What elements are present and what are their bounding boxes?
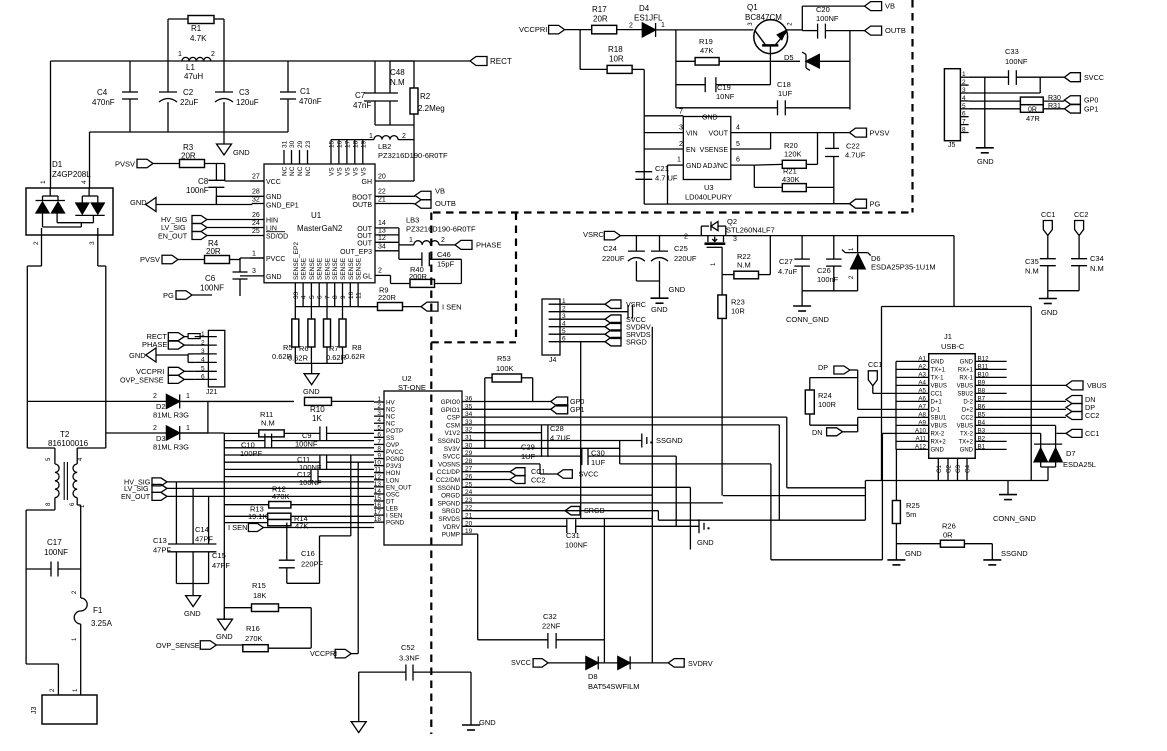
svg-text:GND: GND [960, 360, 974, 366]
svg-text:GND: GND [686, 163, 702, 170]
wire bottom cap rail [90, 131, 289, 133]
svg-text:470nF: 470nF [299, 97, 322, 106]
J1 shield pins G1-G4 [937, 458, 939, 480]
svg-text:33: 33 [465, 419, 473, 426]
svg-text:C27: C27 [779, 257, 793, 266]
svg-text:4: 4 [201, 357, 205, 364]
svg-text:B6: B6 [978, 403, 986, 410]
svg-text:120uF: 120uF [236, 98, 259, 107]
svg-text:33: 33 [293, 291, 300, 299]
svg-text:430K: 430K [782, 175, 800, 184]
svg-text:DT: DT [386, 498, 395, 505]
svg-text:2: 2 [377, 403, 381, 410]
svg-text:VBUS: VBUS [957, 424, 973, 430]
svg-text:3: 3 [962, 87, 966, 94]
flag VSRC J4 pin1 [570, 303, 605, 305]
svg-text:GND: GND [669, 285, 686, 294]
svg-text:OUTB: OUTB [353, 202, 373, 209]
svg-text:19: 19 [465, 528, 473, 535]
svg-text:816100016: 816100016 [48, 439, 89, 448]
svg-text:NC: NC [297, 166, 304, 176]
svg-text:GND: GND [130, 198, 147, 207]
svg-text:NC: NC [305, 166, 312, 176]
svg-text:VS: VS [344, 167, 351, 176]
svg-text:VCCPRI: VCCPRI [310, 649, 337, 658]
ground GND under J5 [976, 147, 994, 149]
svg-text:30: 30 [289, 140, 296, 148]
svg-text:2: 2 [211, 51, 215, 58]
bottom rail to PG [644, 203, 849, 205]
svg-text:VIN: VIN [686, 131, 698, 138]
svg-text:6: 6 [736, 157, 740, 164]
svg-text:29: 29 [465, 450, 473, 457]
svg-text:47nF: 47nF [353, 101, 371, 110]
svg-text:LEB: LEB [386, 506, 398, 513]
flag DN right [1007, 400, 1066, 402]
svg-text:DN: DN [812, 428, 822, 437]
svg-text:C6: C6 [205, 274, 216, 283]
svg-text:32: 32 [465, 427, 473, 434]
wire bridge pin2 down to T2 [41, 235, 43, 266]
svg-text:B11: B11 [978, 363, 989, 370]
wire C34/C35 join to GND [1048, 290, 1079, 292]
row CSM long wire [474, 424, 779, 426]
svg-text:220UF: 220UF [602, 254, 625, 263]
svg-text:GND: GND [479, 718, 496, 727]
svg-text:20R: 20R [206, 247, 221, 256]
svg-text:100K: 100K [496, 364, 514, 373]
svg-text:VBUS: VBUS [931, 424, 947, 430]
svg-text:LB2: LB2 [378, 142, 391, 151]
flag SVCC J5 [1064, 73, 1080, 82]
svg-text:C13: C13 [153, 536, 167, 545]
svg-text:ES1JFL: ES1JFL [634, 14, 663, 23]
wires U2 GPIO to GP0 GP1 flags [474, 401, 551, 403]
svg-text:0.62R: 0.62R [345, 352, 366, 361]
ground GND below C3 [223, 132, 225, 144]
svg-text:3: 3 [562, 313, 566, 320]
svg-text:SVDRV: SVDRV [688, 659, 713, 668]
svg-text:25: 25 [252, 228, 260, 235]
svg-text:B4: B4 [978, 419, 986, 426]
svg-text:470nF: 470nF [92, 98, 115, 107]
svg-text:R7: R7 [329, 344, 339, 353]
svg-text:100NF: 100NF [816, 14, 839, 23]
svg-text:BAT54SWFILM: BAT54SWFILM [588, 682, 640, 691]
svg-text:SBU2: SBU2 [957, 392, 973, 398]
svg-text:2: 2 [562, 306, 566, 313]
capacitor C1 470nF [287, 61, 289, 92]
svg-text:16: 16 [336, 140, 343, 148]
svg-text:U3: U3 [704, 183, 714, 192]
svg-text:CSP: CSP [447, 415, 460, 422]
svg-text:C18: C18 [777, 80, 791, 89]
row CSP long wire [474, 416, 787, 418]
svg-text:SVCC: SVCC [1084, 73, 1104, 82]
svg-text:GP0: GP0 [1084, 96, 1098, 105]
svg-text:C22: C22 [846, 142, 860, 151]
svg-text:C16: C16 [301, 549, 315, 558]
svg-text:USB-C: USB-C [941, 342, 965, 351]
svg-text:7: 7 [679, 109, 683, 116]
svg-text:GND: GND [129, 351, 146, 360]
svg-text:ESDA25P35-1U1M: ESDA25P35-1U1M [871, 263, 936, 272]
svg-text:HV: HV [386, 400, 396, 407]
capacitor C2 22uF [167, 61, 169, 92]
flag CC1 mid [510, 468, 525, 476]
svg-text:C29: C29 [521, 443, 535, 452]
wires C13 C14 C15 verticals [175, 482, 177, 544]
svg-text:4: 4 [377, 417, 381, 424]
svg-text:GND: GND [960, 448, 974, 454]
staircase wire SSGND to J1 area [619, 441, 621, 464]
flag VBUS right [1007, 384, 1066, 386]
svg-text:OVP: OVP [386, 442, 399, 449]
svg-text:A7: A7 [918, 403, 926, 410]
svg-text:220UF: 220UF [674, 254, 697, 263]
svg-text:B2: B2 [978, 435, 986, 442]
svg-text:GH: GH [362, 179, 373, 186]
svg-text:20R: 20R [593, 15, 608, 24]
svg-text:18: 18 [352, 140, 359, 148]
svg-text:VCCPRI: VCCPRI [519, 25, 547, 34]
svg-text:N.M: N.M [1090, 264, 1104, 273]
svg-text:CSM: CSM [446, 422, 460, 429]
svg-text:GL: GL [363, 274, 372, 281]
row SV3V [474, 447, 620, 449]
svg-text:4: 4 [81, 180, 88, 184]
svg-text:PG: PG [870, 200, 881, 209]
flag PHASE [455, 240, 472, 249]
dashed isolation horizontal y342 [431, 341, 516, 343]
svg-text:C14: C14 [195, 525, 209, 534]
svg-text:SENSE: SENSE [317, 257, 324, 280]
svg-text:C25: C25 [674, 244, 688, 253]
svg-text:1: 1 [962, 71, 966, 78]
svg-text:9: 9 [340, 295, 347, 299]
capacitor C6 100NF [239, 258, 241, 272]
svg-text:C34: C34 [1090, 254, 1104, 263]
vertical SVDRV long [651, 327, 653, 663]
svg-text:J1: J1 [944, 332, 952, 341]
svg-text:B1: B1 [978, 443, 986, 450]
svg-text:TX+2: TX+2 [958, 440, 973, 446]
wire LB2 pin2 to GH [413, 140, 415, 181]
wire T2 pin1 down right side [76, 498, 78, 505]
wire J5 pin1 to C33 [969, 76, 1009, 78]
svg-text:N.M: N.M [737, 261, 751, 270]
svg-text:A1: A1 [918, 355, 926, 362]
flag GP1 [551, 405, 568, 414]
svg-text:100NF: 100NF [44, 548, 68, 557]
svg-text:GND: GND [1041, 308, 1058, 317]
svg-text:A6: A6 [918, 395, 926, 402]
svg-text:RX+1: RX+1 [958, 368, 974, 374]
svg-text:18: 18 [374, 516, 382, 523]
svg-text:R16: R16 [246, 624, 260, 633]
svg-text:RX-2: RX-2 [931, 432, 945, 438]
svg-text:C2: C2 [183, 88, 194, 97]
svg-text:T2: T2 [60, 430, 70, 439]
svg-text:28: 28 [252, 189, 260, 196]
flag DP right [1007, 408, 1066, 410]
svg-text:0.62R: 0.62R [326, 353, 347, 362]
svg-text:SVCC: SVCC [511, 658, 531, 667]
svg-text:C7: C7 [355, 91, 366, 100]
svg-text:4: 4 [562, 321, 566, 328]
wire U3 GND pin to bottom rail [667, 165, 669, 204]
svg-text:220R: 220R [378, 293, 397, 302]
svg-text:GND: GND [233, 148, 250, 157]
svg-text:R10: R10 [310, 405, 325, 414]
svg-text:13: 13 [378, 228, 386, 235]
svg-text:12: 12 [378, 235, 386, 242]
IC U1 MasterGaN2 [264, 164, 375, 283]
svg-text:GND: GND [303, 387, 320, 396]
svg-text:SENSE: SENSE [332, 257, 339, 280]
svg-text:4.7 UF: 4.7 UF [655, 174, 678, 183]
svg-text:OSC: OSC [386, 491, 400, 498]
svg-text:1UF: 1UF [591, 458, 606, 467]
svg-text:2: 2 [684, 234, 688, 241]
svg-text:GND: GND [697, 538, 714, 547]
svg-text:100NF: 100NF [1005, 57, 1028, 66]
svg-text:R23: R23 [731, 298, 745, 307]
svg-text:C28: C28 [550, 424, 564, 433]
svg-text:VCC: VCC [266, 179, 281, 186]
svg-text:R26: R26 [942, 522, 956, 531]
svg-text:19: 19 [360, 140, 367, 148]
svg-text:GND: GND [905, 549, 922, 558]
svg-text:OUTB: OUTB [435, 199, 456, 208]
svg-text:D+1: D+1 [931, 400, 943, 406]
svg-text:CONN_GND: CONN_GND [786, 315, 830, 324]
resistor R10 1K [305, 397, 332, 405]
svg-text:CC2: CC2 [1074, 210, 1088, 219]
wire T2 primary top [26, 401, 28, 448]
svg-text:PVCC: PVCC [266, 256, 285, 263]
svg-text:3: 3 [201, 348, 205, 355]
flag CC1 right lower [1007, 432, 1041, 434]
flag SRVDS J4 pin5 [570, 333, 605, 335]
svg-text:6: 6 [562, 336, 566, 343]
wire R3 to U1 VCC [205, 163, 225, 165]
svg-text:2: 2 [153, 425, 157, 432]
svg-text:R19: R19 [699, 37, 713, 46]
svg-text:2: 2 [378, 268, 382, 275]
svg-text:2: 2 [201, 339, 205, 346]
wire T2 pin8 to C17 left [54, 498, 56, 510]
svg-text:1: 1 [377, 396, 381, 403]
svg-text:ADJ/NC: ADJ/NC [703, 163, 728, 170]
svg-text:23: 23 [305, 140, 312, 148]
ground GND under C35 [1039, 298, 1057, 300]
flag GP1 J5 [1064, 105, 1080, 114]
svg-text:C33: C33 [1005, 47, 1019, 56]
svg-text:LB3: LB3 [406, 216, 419, 225]
svg-text:PVSV: PVSV [115, 160, 135, 169]
svg-text:HIN: HIN [266, 218, 278, 225]
svg-text:C20: C20 [816, 5, 830, 14]
svg-text:C35: C35 [1025, 257, 1039, 266]
wire D6/C27/C26 ground rail [802, 290, 858, 292]
svg-text:SENSE_EP2: SENSE_EP2 [293, 242, 300, 280]
svg-text:26: 26 [252, 212, 260, 219]
svg-text:OUT: OUT [357, 241, 373, 248]
svg-text:6: 6 [377, 431, 381, 438]
svg-text:4: 4 [301, 295, 308, 299]
svg-text:GPIO1: GPIO1 [441, 407, 461, 414]
svg-text:10: 10 [374, 460, 382, 467]
svg-text:OUT_EP3: OUT_EP3 [340, 249, 372, 256]
svg-text:100nF: 100nF [817, 275, 839, 284]
svg-text:POTP: POTP [386, 428, 403, 435]
svg-text:B7: B7 [978, 395, 986, 402]
svg-text:VS: VS [336, 167, 343, 176]
svg-text:VSENSE: VSENSE [700, 147, 729, 154]
svg-text:100NF: 100NF [565, 541, 588, 550]
flag CC2 right [1007, 416, 1066, 418]
svg-text:SRGD: SRGD [626, 338, 647, 347]
capacitor C46 15pF [398, 245, 400, 259]
svg-text:100R: 100R [818, 400, 837, 409]
svg-text:1: 1 [178, 51, 182, 58]
ground GND under sense resistors [295, 362, 342, 364]
dashed isolation line top right vertical [911, 0, 913, 213]
svg-text:47K: 47K [700, 46, 713, 55]
svg-text:TX-1: TX-1 [931, 376, 945, 382]
junction VSENSE to VOUT [770, 133, 772, 149]
svg-text:C17: C17 [47, 538, 62, 547]
svg-text:OUT: OUT [357, 233, 373, 240]
svg-text:SVCC: SVCC [443, 454, 461, 461]
resistor R8 0.62R [342, 307, 344, 319]
svg-text:2: 2 [33, 241, 40, 245]
junction to R18 [579, 30, 581, 70]
svg-text:12: 12 [374, 474, 382, 481]
svg-text:220PF: 220PF [301, 560, 324, 569]
svg-text:B3: B3 [978, 427, 986, 434]
svg-text:22: 22 [378, 189, 386, 196]
resistor R5 0.62R [294, 307, 296, 319]
svg-text:VSRC: VSRC [583, 230, 604, 239]
dashed isolation vertical x516 [515, 213, 517, 343]
connector J5 [944, 69, 960, 141]
svg-text:PVSV: PVSV [870, 129, 890, 138]
svg-text:L1: L1 [186, 63, 195, 72]
diode D8 BAT54SWFILM dual [586, 656, 598, 669]
svg-text:VS: VS [329, 167, 336, 176]
svg-text:GND: GND [931, 448, 945, 454]
svg-text:LD040LPURY: LD040LPURY [685, 193, 732, 202]
svg-text:RX+2: RX+2 [931, 440, 947, 446]
vertical gnd bus J5 [984, 77, 986, 148]
svg-text:C24: C24 [603, 244, 617, 253]
svg-text:1: 1 [40, 180, 47, 184]
svg-text:N.M: N.M [1025, 267, 1039, 276]
rows to U2 left pins [224, 447, 374, 449]
svg-text:5: 5 [736, 141, 740, 148]
svg-text:27: 27 [252, 174, 260, 181]
flag SRGD mid [565, 506, 580, 515]
svg-text:270K: 270K [245, 634, 263, 643]
svg-text:TX+1: TX+1 [931, 368, 946, 374]
svg-text:2: 2 [402, 133, 406, 140]
wire C7/R2 bottom to LB2 [375, 124, 414, 126]
signal ground GND for C31 [698, 519, 700, 533]
svg-text:17: 17 [374, 509, 382, 516]
svg-text:34: 34 [465, 411, 473, 418]
wire comb left bus [224, 432, 258, 434]
svg-text:I SEN: I SEN [228, 523, 248, 532]
signal ground SSGND [641, 434, 643, 448]
svg-text:VOUT: VOUT [709, 131, 729, 138]
flag SVDRV bottom [668, 659, 684, 668]
svg-text:1: 1 [409, 237, 413, 244]
svg-text:0.62R: 0.62R [288, 354, 309, 363]
svg-text:27: 27 [465, 466, 473, 473]
svg-text:10: 10 [348, 291, 355, 299]
svg-text:SSGND: SSGND [1001, 549, 1028, 558]
svg-text:SRVDS: SRVDS [438, 516, 460, 523]
svg-text:1: 1 [186, 393, 190, 400]
svg-text:7: 7 [962, 119, 966, 126]
svg-text:PZ3216D190-6R0TF: PZ3216D190-6R0TF [378, 151, 448, 160]
svg-text:CC2: CC2 [961, 416, 974, 422]
svg-text:A9: A9 [918, 419, 926, 426]
svg-text:4.7UF: 4.7UF [845, 151, 866, 160]
svg-text:1: 1 [562, 298, 566, 305]
svg-text:SPGND: SPGND [438, 500, 461, 507]
svg-text:32: 32 [252, 197, 260, 204]
dashed isolation line horizontal y212 [433, 211, 913, 213]
svg-text:D5: D5 [784, 53, 794, 62]
svg-text:1K: 1K [312, 414, 322, 423]
svg-text:31: 31 [465, 435, 473, 442]
fuse F1 3.25A [80, 569, 82, 598]
svg-text:B5: B5 [978, 411, 986, 418]
wire rail to D2 [27, 400, 166, 402]
svg-text:C46: C46 [437, 250, 451, 259]
svg-text:3: 3 [89, 241, 96, 245]
svg-text:R18: R18 [608, 45, 623, 54]
svg-text:7: 7 [325, 295, 332, 299]
svg-text:PZ3216D190-6R0TF: PZ3216D190-6R0TF [406, 225, 476, 234]
svg-text:U1: U1 [311, 211, 322, 220]
inductor L1 [182, 57, 211, 61]
row CC1/DP to flags [474, 471, 510, 473]
svg-text:CC2: CC2 [531, 475, 545, 484]
svg-text:21: 21 [378, 197, 386, 204]
flag OUTB right [865, 26, 882, 35]
svg-text:CC2: CC2 [1085, 411, 1099, 420]
svg-text:24: 24 [252, 220, 260, 227]
svg-text:1UF: 1UF [778, 89, 793, 98]
svg-text:R25: R25 [906, 501, 920, 510]
svg-text:G2: G2 [947, 464, 953, 473]
svg-text:1UF: 1UF [521, 452, 536, 461]
dashed isolation vertical x431 [430, 213, 432, 735]
svg-text:A12: A12 [915, 443, 927, 450]
svg-text:I SEN: I SEN [386, 513, 403, 520]
svg-text:GPIO0: GPIO0 [441, 399, 461, 406]
svg-text:SRGD: SRGD [584, 506, 605, 515]
capacitor C7 47nF [374, 61, 376, 93]
connector J4 [542, 299, 560, 355]
svg-text:SV3V: SV3V [444, 446, 461, 453]
svg-text:22NF: 22NF [542, 622, 561, 631]
row ORGD [474, 494, 652, 496]
